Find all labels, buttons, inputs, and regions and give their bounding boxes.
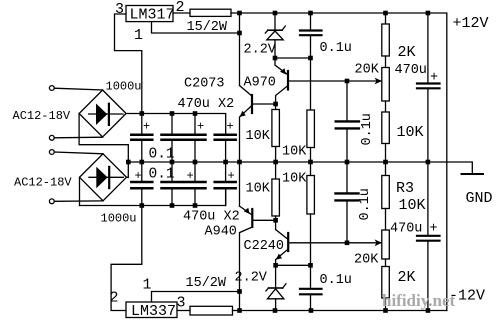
svg-text:C2073: C2073 <box>184 77 225 92</box>
capacitor C 0.1 (top row c2) <box>149 114 183 163</box>
wire LM317 pin1 (ADJ) <box>152 22 240 33</box>
bridge rectifier B2 <box>80 154 137 226</box>
transistor Q4 C2240 <box>244 220 382 265</box>
svg-text:0.1u: 0.1u <box>320 41 352 56</box>
svg-text:0.1u: 0.1u <box>358 188 373 220</box>
svg-text:10K: 10K <box>246 182 271 197</box>
node mid line junctions <box>126 160 430 165</box>
svg-text:1: 1 <box>134 27 143 44</box>
svg-text:+: + <box>227 120 234 134</box>
svg-text:+: + <box>228 169 235 183</box>
svg-text:10K: 10K <box>397 124 424 141</box>
capacitor C 470u (top row c3) <box>185 114 206 163</box>
svg-text:1000u: 1000u <box>101 212 137 226</box>
wire node y=58 <box>275 57 311 59</box>
wire LM337 pin3 to resistor <box>177 310 190 312</box>
svg-text:0.1u: 0.1u <box>320 273 352 288</box>
capacitor C 0.1u top <box>300 13 352 110</box>
svg-text:+: + <box>187 169 194 183</box>
resistor 10K (top right) <box>382 101 424 162</box>
wire bottom raw rail y=205.5 <box>80 189 226 205</box>
wire column x=239.5 upper <box>239 13 241 86</box>
regulator U2 LM337 <box>110 277 186 320</box>
wire top +raw line to +12V corner <box>231 13 447 311</box>
terminal AC input 2 <box>14 150 103 204</box>
potentiometer 20K (top) <box>382 56 390 101</box>
svg-text:470u: 470u <box>395 63 427 78</box>
svg-text:20K: 20K <box>354 253 379 268</box>
wiper arrow into 20K pot (top) <box>375 78 383 85</box>
svg-text:+: + <box>430 71 438 86</box>
capacitor C 470u (top right) <box>395 13 440 162</box>
capacitor C 470u (bottom row c4) <box>183 162 240 225</box>
wire LM317 pin3 to raw + rail <box>115 14 142 114</box>
svg-text:470u X2: 470u X2 <box>178 97 235 112</box>
svg-text:AC12-18V: AC12-18V <box>13 109 71 123</box>
wire LM337 pin1 (ADJ) <box>152 292 240 303</box>
capacitor C 470u (top row c4) <box>178 97 236 162</box>
capacitor C 1000u (bottom row c1) <box>131 162 152 206</box>
svg-text:+12V: +12V <box>453 15 489 32</box>
resistor 2K (bottom right) <box>382 259 416 311</box>
svg-text:2.2V: 2.2V <box>235 271 268 286</box>
wire bridge2 plus to mid GND <box>127 162 129 177</box>
transistor Q2 A970 <box>244 58 382 104</box>
wire column x=239.5 lower (A940 emitter/collector) <box>239 162 241 206</box>
svg-text:0.1: 0.1 <box>149 167 175 183</box>
svg-text:2: 2 <box>110 290 119 307</box>
capacitor C 0.1u (x=347 upper, rotated label) <box>336 79 375 162</box>
svg-text:A940: A940 <box>205 225 237 240</box>
svg-text:10K: 10K <box>399 197 426 214</box>
svg-text:470u X2: 470u X2 <box>183 210 240 225</box>
resistor R3 10K (lower right) <box>382 162 426 214</box>
wire bottom rail to LM337 pin2 <box>111 206 142 311</box>
transistor Q3 A940 <box>205 206 276 310</box>
svg-text:2.2V: 2.2V <box>244 43 277 58</box>
svg-text:2K: 2K <box>398 269 416 286</box>
svg-text:+: + <box>197 120 204 134</box>
svg-text:3: 3 <box>115 1 124 18</box>
svg-text:LM337: LM337 <box>131 303 176 320</box>
wire bridge1 minus to mid GND <box>79 114 128 163</box>
capacitor C 0.1 (bottom row c2) <box>149 162 183 206</box>
svg-text:1000u: 1000u <box>106 80 142 94</box>
resistor 10K (x=276 upper) <box>246 102 280 162</box>
wire mid GND line <box>128 162 472 174</box>
capacitor C 470u (bottom row c3) <box>185 162 206 206</box>
svg-text:10K: 10K <box>282 145 307 160</box>
capacitor C 0.1u bottom (x=311) <box>300 273 352 311</box>
svg-text:1: 1 <box>143 277 152 294</box>
svg-text:+: + <box>430 222 438 237</box>
svg-text:0.1u: 0.1u <box>360 113 375 145</box>
resistor R 15/2W top <box>187 9 232 35</box>
svg-text:470u: 470u <box>390 222 422 237</box>
svg-text:C2240: C2240 <box>244 239 285 254</box>
resistor R 15/2W bottom <box>186 276 233 315</box>
ground symbol <box>462 173 484 175</box>
wire bottom -raw line <box>233 310 447 312</box>
bridge rectifier B1 <box>79 80 141 138</box>
svg-text:+: + <box>143 120 150 134</box>
transistor Q1 C2073 <box>184 77 276 163</box>
svg-text:20K: 20K <box>355 63 380 78</box>
resistor 10K (x=276 lower) <box>246 162 280 223</box>
svg-text:+: + <box>135 169 142 183</box>
svg-text:15/2W: 15/2W <box>187 20 228 35</box>
zener D2 2.2V bottom <box>235 265 286 310</box>
wire LM317 pin2 to resistor R 15/2W <box>173 12 190 14</box>
svg-text:A970: A970 <box>244 76 276 91</box>
regulator U1 LM317 <box>115 0 185 44</box>
capacitor C 0.1u (x=347 lower, rotated label) <box>336 162 374 245</box>
svg-text:2K: 2K <box>398 44 416 61</box>
terminal AC input 1 <box>13 86 103 141</box>
node ADJ junction <box>237 31 242 36</box>
potentiometer 20K (bottom) <box>382 209 390 260</box>
resistor 10K (x=311 upper) <box>282 110 314 162</box>
resistor 2K (top right) <box>382 13 416 61</box>
capacitor C 1000u (top row c1) <box>131 114 152 163</box>
svg-text:hifidiy.net: hifidiy.net <box>382 291 456 310</box>
wire top raw rail y=113.5 <box>126 114 226 135</box>
wire bridge2 minus to bottom rail <box>79 177 81 205</box>
svg-text:15/2W: 15/2W <box>186 276 227 291</box>
capacitor C 470u (bottom right) <box>390 162 440 311</box>
wire node y=265.3 <box>276 264 311 266</box>
node top wire junctions <box>237 11 430 16</box>
zener D1 2.2V top <box>244 13 286 58</box>
wiper arrow into 20K pot (bottom) <box>375 239 383 246</box>
svg-text:10K: 10K <box>282 172 307 187</box>
svg-text:3: 3 <box>177 295 186 312</box>
svg-text:10K: 10K <box>246 129 271 144</box>
svg-text:GND: GND <box>466 190 493 207</box>
svg-text:AC12-18V: AC12-18V <box>14 176 72 190</box>
resistor 10K (x=311 lower) <box>282 162 314 289</box>
svg-text:R3: R3 <box>396 180 414 197</box>
